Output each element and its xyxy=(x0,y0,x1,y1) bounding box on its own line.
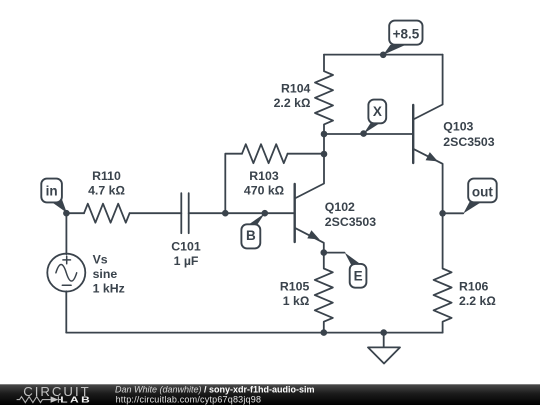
resistor R103 xyxy=(242,144,288,163)
label R105 value xyxy=(280,279,310,308)
label Vs value xyxy=(93,253,125,296)
wire: top supply rail xyxy=(324,54,443,56)
transistor Q103 base bar xyxy=(412,105,414,163)
svg-text:E: E xyxy=(354,269,363,284)
node flag X xyxy=(364,100,386,134)
footer url line xyxy=(116,394,262,404)
wire: R103 right lead to collector node xyxy=(288,153,324,155)
label C101 value xyxy=(171,240,201,269)
label Q103 name xyxy=(443,120,494,149)
footer logo LAB xyxy=(60,396,92,405)
junction node E xyxy=(321,249,328,256)
svg-text:2SC3503: 2SC3503 xyxy=(443,135,494,149)
label Q102 name xyxy=(325,200,376,229)
terminal flag out xyxy=(463,179,496,214)
svg-text:R110: R110 xyxy=(92,169,121,183)
svg-text:Q103: Q103 xyxy=(443,120,473,134)
voltage source Vs (sine) xyxy=(47,254,85,292)
svg-text:2SC3503: 2SC3503 xyxy=(325,215,376,229)
transistor Q102 base bar xyxy=(294,184,296,242)
svg-text:1 kΩ: 1 kΩ xyxy=(283,294,310,308)
svg-text:R104: R104 xyxy=(281,81,311,95)
power flag +8.5 xyxy=(383,21,422,55)
footer bar xyxy=(0,384,540,405)
wire: R103 left vertical riser xyxy=(225,154,242,214)
svg-text:R105: R105 xyxy=(280,279,310,293)
capacitor C101 xyxy=(181,193,188,233)
footer logo CIRCUIT xyxy=(23,384,90,399)
svg-text:R106: R106 xyxy=(459,279,489,293)
transistor Q102 emitter arrow xyxy=(307,230,319,239)
svg-text:470 kΩ: 470 kΩ xyxy=(244,183,284,197)
footer logo circuit icon (resistor + diode) xyxy=(17,396,62,402)
junction node: +8.5 supply attach xyxy=(380,52,387,59)
svg-text:1 kHz: 1 kHz xyxy=(93,282,125,296)
svg-text:out: out xyxy=(472,185,493,200)
svg-text:1 µF: 1 µF xyxy=(174,254,199,268)
label R110 value xyxy=(88,169,125,198)
wire: input node to R110 left lead xyxy=(66,212,84,214)
junction node: out xyxy=(439,210,446,217)
svg-text:C101: C101 xyxy=(171,240,201,254)
junction node: C101/R103 xyxy=(222,210,229,217)
resistor R106 xyxy=(434,213,452,332)
flag pointer: E wire stub xyxy=(324,252,345,254)
wire: input node down to Vs top xyxy=(65,213,67,254)
wire: bottom ground rail xyxy=(66,332,442,334)
label R106 value xyxy=(459,279,496,308)
resistor R104 xyxy=(315,55,333,134)
svg-text:2.2 kΩ: 2.2 kΩ xyxy=(459,294,496,308)
transistor Q102 emitter xyxy=(295,228,324,253)
wire: collector node to Q103 base xyxy=(324,133,413,135)
resistor R110 xyxy=(84,204,130,223)
svg-text:X: X xyxy=(373,104,382,119)
junction node: R103 right / collector xyxy=(321,151,328,158)
svg-text:R103: R103 xyxy=(249,169,279,183)
junction node B xyxy=(262,210,269,217)
transistor Q103 emitter xyxy=(413,149,442,214)
junction node: input xyxy=(63,210,70,217)
footer attribution line xyxy=(115,385,315,395)
svg-text:sine: sine xyxy=(93,267,118,281)
node flag B xyxy=(241,213,264,248)
ground xyxy=(368,333,400,364)
svg-text:http://circuitlab.com/cytp67q8: http://circuitlab.com/cytp67q83jq98 xyxy=(116,394,262,404)
svg-text:LAB: LAB xyxy=(60,396,92,405)
transistor Q103 collector xyxy=(413,55,442,120)
wire: Vs bottom to ground rail xyxy=(65,291,67,332)
terminal flag in xyxy=(41,179,67,213)
label R103 value xyxy=(244,169,284,198)
transistor Q103 emitter arrow xyxy=(426,152,438,161)
wire: C101 right plate to Q102 base xyxy=(189,212,295,214)
transistor Q102 collector xyxy=(295,134,324,199)
svg-text:Dan White (danwhite) / sony-xd: Dan White (danwhite) / sony-xdr-f1hd-aud… xyxy=(115,385,315,395)
svg-text:Q102: Q102 xyxy=(325,200,355,214)
label R104 value xyxy=(274,81,311,110)
junction node: X flag attach xyxy=(360,130,367,137)
resistor R105 xyxy=(315,253,333,333)
svg-text:+8.5: +8.5 xyxy=(393,26,420,41)
svg-text:Vs: Vs xyxy=(93,253,108,267)
node flag E xyxy=(345,253,367,288)
junction node: ground rail xyxy=(380,329,387,336)
svg-text:4.7 kΩ: 4.7 kΩ xyxy=(88,184,125,198)
wire: R110 to C101 left plate xyxy=(130,212,182,214)
svg-text:B: B xyxy=(246,228,256,243)
svg-text:in: in xyxy=(46,183,58,198)
junction node: R104 bottom / X wire xyxy=(321,131,328,138)
junction node: R105 bottom xyxy=(321,329,328,336)
flag pointer: out wire stub xyxy=(443,212,464,214)
svg-text:2.2 kΩ: 2.2 kΩ xyxy=(274,96,311,110)
